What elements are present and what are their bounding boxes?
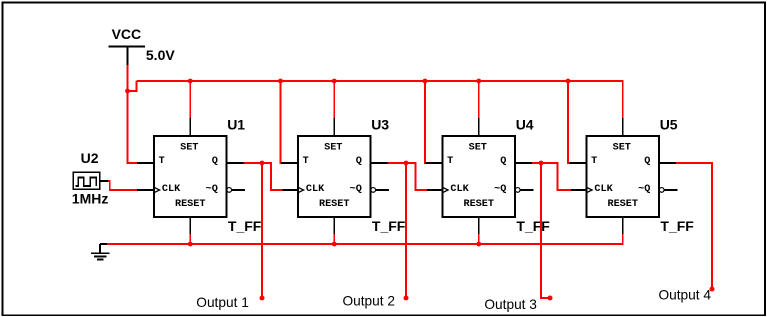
pin stub U2 output — [100, 180, 109, 182]
svg-text:T_FF: T_FF — [516, 218, 550, 234]
junction ground rail at RESET U3 — [332, 242, 337, 247]
svg-text:T_FF: T_FF — [228, 218, 262, 234]
wire Q U3 to node — [388, 162, 407, 164]
pin stub Q U1 — [227, 162, 245, 164]
svg-text:Q: Q — [212, 156, 218, 167]
pin stub CLK U4 — [426, 189, 443, 191]
pin stub CLK U1 — [137, 189, 154, 191]
svg-text:U4: U4 — [516, 116, 534, 132]
wire RESET U5 rail end — [622, 234, 624, 245]
wire RESET U5 to ground rail — [622, 234, 624, 244]
inversion bubble ~Q U4 — [515, 188, 520, 193]
svg-text:U3: U3 — [371, 116, 389, 132]
svg-text:Q: Q — [644, 156, 650, 167]
wire Q U1 to node — [244, 162, 263, 164]
wire ground rail black lead — [100, 243, 108, 245]
T flip-flop U1 — [137, 118, 245, 235]
pin stub CLK U5 — [570, 189, 587, 191]
output terminal 1 — [260, 296, 265, 301]
ground — [91, 244, 110, 259]
junction rail at T U3 — [278, 79, 283, 84]
clock edge marker U5 — [587, 187, 593, 192]
svg-text:SET: SET — [324, 143, 342, 154]
svg-text:CLK: CLK — [594, 184, 613, 195]
wire Q U4 to node — [532, 162, 541, 164]
clock edge marker U3 — [298, 187, 304, 192]
output terminal 3 — [548, 296, 553, 301]
pin stub Q U5 — [659, 162, 677, 164]
svg-text:Output 1: Output 1 — [196, 295, 249, 310]
svg-text:SET: SET — [180, 143, 198, 154]
pin stub RESET U1 — [189, 217, 191, 235]
junction VCC node — [125, 89, 130, 94]
wire rail to T of U5 — [567, 81, 569, 164]
wire output 3 drop — [541, 163, 550, 298]
pin stub T U4 — [426, 162, 443, 164]
wire RESET U1 to ground rail — [189, 234, 191, 244]
svg-text:U2: U2 — [81, 150, 99, 166]
inversion bubble ~Q U3 — [371, 188, 376, 193]
pin stub SET U3 — [333, 118, 335, 136]
junction rail at SET U1 — [188, 79, 193, 84]
pin stub SET U1 — [189, 118, 191, 136]
clock source U2 1MHz — [72, 150, 109, 206]
pin stub RESET U5 — [622, 217, 624, 235]
svg-text:SET: SET — [613, 143, 631, 154]
svg-text:T: T — [447, 156, 453, 167]
pin stub SET U5 — [622, 118, 624, 136]
svg-text:U1: U1 — [227, 116, 245, 132]
svg-text:~Q: ~Q — [494, 184, 506, 195]
svg-text:~Q: ~Q — [206, 184, 218, 195]
junction Q U3 output node — [404, 161, 409, 166]
pin stub RESET U4 — [478, 217, 480, 235]
pin stub ~Q U4 — [520, 189, 534, 191]
svg-text:5.0V: 5.0V — [146, 47, 175, 63]
svg-text:Q: Q — [500, 156, 506, 167]
wire node to CLK U4 — [406, 163, 427, 190]
wire rail to T of U4 — [424, 81, 426, 164]
power VCC — [109, 26, 145, 65]
inversion bubble ~Q U1 — [227, 188, 232, 193]
pin stub ~Q U1 — [232, 189, 246, 191]
wire node jog up to top rail — [128, 81, 137, 91]
wire rail to SET of U3 — [333, 81, 335, 119]
svg-text:T_FF: T_FF — [372, 218, 406, 234]
inversion bubble ~Q U5 — [659, 188, 664, 193]
output terminal 4 — [710, 287, 715, 292]
pin stub ~Q U5 — [664, 189, 678, 191]
wire Q U5 to output 4 — [676, 163, 712, 289]
wire U2 to U1 CLK — [108, 181, 138, 190]
svg-text:~Q: ~Q — [350, 184, 362, 195]
svg-text:Output 3: Output 3 — [484, 297, 537, 312]
pin stub T U1 — [137, 162, 154, 164]
svg-text:RESET: RESET — [175, 199, 206, 210]
wire VCC down to node — [127, 65, 129, 91]
junction Q U4 output node — [539, 161, 544, 166]
svg-text:T: T — [159, 156, 165, 167]
wire output 1 drop — [261, 163, 263, 298]
T flip-flop U5 — [570, 118, 678, 235]
junction Q U1 output node — [260, 161, 265, 166]
pin stub Q U4 — [515, 162, 533, 164]
svg-text:RESET: RESET — [607, 199, 638, 210]
svg-text:~Q: ~Q — [638, 184, 650, 195]
wire top VCC rail — [137, 81, 623, 118]
svg-text:CLK: CLK — [450, 184, 469, 195]
wire rail to SET of U1 — [189, 81, 191, 119]
svg-text:Output 2: Output 2 — [343, 294, 396, 309]
pin stub T U5 — [570, 162, 587, 164]
T flip-flop U3 — [281, 118, 389, 235]
junction rail at SET U3 — [332, 79, 337, 84]
pin stub SET U4 — [478, 118, 480, 136]
svg-text:CLK: CLK — [162, 184, 181, 195]
clock edge marker U4 — [443, 187, 449, 192]
junction rail at T U4 — [423, 79, 428, 84]
svg-text:U5: U5 — [660, 116, 678, 132]
output terminal 2 — [404, 296, 409, 301]
clock edge marker U1 — [154, 187, 160, 192]
svg-text:CLK: CLK — [306, 184, 325, 195]
svg-text:Output 4: Output 4 — [659, 288, 712, 303]
wire RESET U3 to ground rail — [333, 234, 335, 244]
wire node to CLK U5 — [541, 163, 571, 190]
svg-text:T: T — [303, 156, 309, 167]
svg-text:VCC: VCC — [112, 26, 142, 42]
wire rail to SET of U4 — [478, 81, 480, 119]
wire VCC node down to U1 T — [127, 91, 129, 164]
svg-text:T_FF: T_FF — [660, 218, 694, 234]
wire node to CLK U3 — [262, 163, 283, 190]
svg-text:SET: SET — [469, 143, 487, 154]
svg-text:Q: Q — [356, 156, 362, 167]
pin stub Q U3 — [371, 162, 389, 164]
junction rail at T U5 — [566, 79, 571, 84]
pin stub CLK U3 — [281, 189, 298, 191]
svg-text:RESET: RESET — [463, 199, 494, 210]
pin stub ~Q U3 — [376, 189, 390, 191]
junction ground rail at RESET U4 — [476, 242, 481, 247]
wire bottom ground rail — [107, 243, 623, 245]
T flip-flop U4 — [426, 118, 534, 235]
junction rail at SET U4 — [476, 79, 481, 84]
svg-text:1MHz: 1MHz — [72, 190, 109, 206]
wire rail to T of U3 — [280, 81, 282, 164]
wire output 2 drop — [405, 163, 407, 298]
svg-text:T: T — [591, 156, 597, 167]
pin stub RESET U3 — [333, 217, 335, 235]
pin stub T U3 — [281, 162, 298, 164]
svg-text:RESET: RESET — [319, 199, 350, 210]
junction ground rail at RESET U1 — [188, 242, 193, 247]
wire RESET U4 to ground rail — [478, 234, 480, 244]
